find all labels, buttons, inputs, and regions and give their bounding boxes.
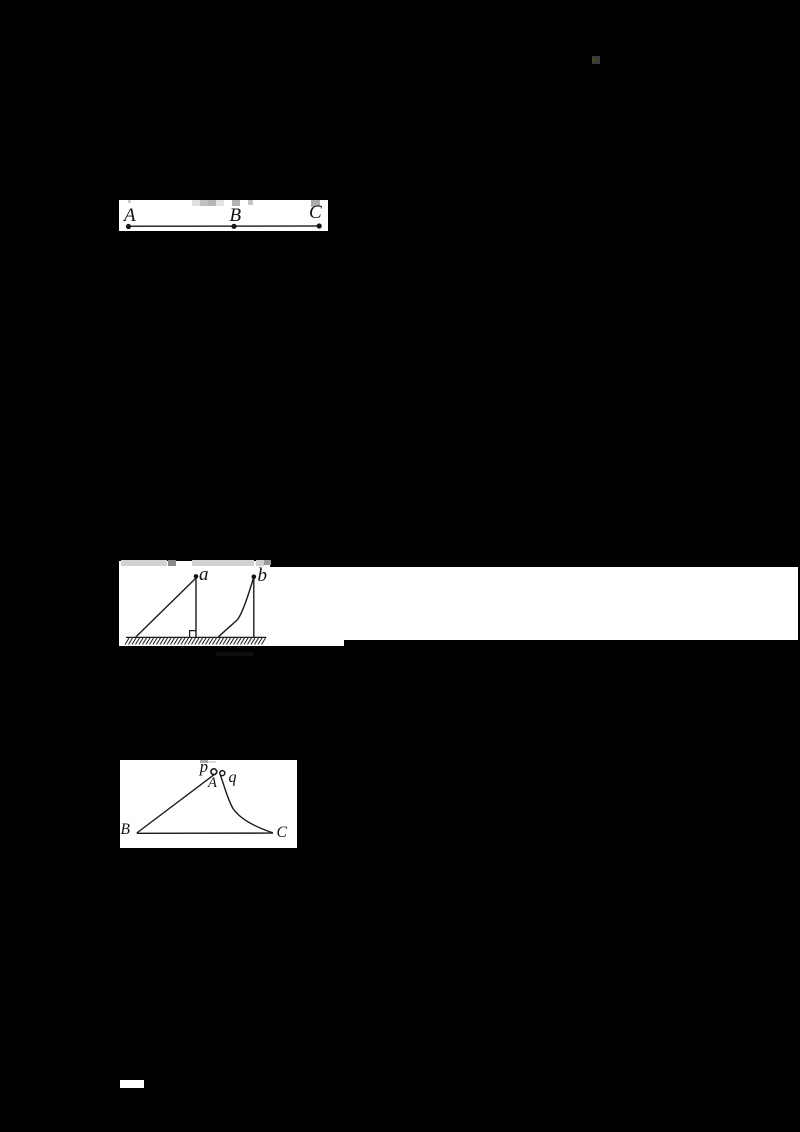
pole b vertical line: [253, 578, 255, 638]
label A (fig1): [124, 206, 136, 225]
ground hatching: [125, 638, 266, 645]
node A dot: [126, 223, 131, 228]
right-angle mark at pole a base: [190, 630, 196, 636]
figure 1 white box: [119, 200, 328, 232]
faint remnant below figure 2 box: [216, 652, 253, 656]
node b dot: [252, 574, 257, 579]
figure 2 white right band: [344, 567, 798, 640]
figure 2 white middle strip: [270, 567, 344, 646]
label a (fig2): [199, 565, 209, 584]
small circle q: [219, 770, 224, 775]
figure 3 drawing: [120, 760, 297, 848]
olive mark inside gray square: [592, 58, 595, 63]
label p (fig3): [200, 759, 208, 776]
node C dot: [317, 223, 322, 228]
figure 1 faded text smudge row: [128, 200, 131, 204]
curved rope to pole b: [219, 578, 254, 636]
triangle left side A-B: [136, 772, 216, 833]
ground line: [126, 636, 266, 638]
figure 2 faded text smudge row: [121, 560, 168, 566]
small circle p: [210, 768, 216, 774]
label C (fig1): [309, 203, 322, 222]
label B (fig3): [121, 822, 130, 838]
small dark gray square top right: [592, 56, 600, 64]
label A (fig3): [208, 776, 217, 791]
node B dot: [232, 223, 237, 228]
label C (fig3): [277, 825, 287, 841]
triangle base B-C: [136, 832, 272, 834]
figure 2 drawing: [119, 561, 270, 647]
ladder line to pole a: [136, 578, 196, 637]
pole a vertical line: [195, 578, 197, 637]
figure 2 white box (left part with drawing): [119, 561, 270, 646]
wire segment A-C: [129, 225, 320, 227]
node a dot: [194, 574, 199, 579]
small white rectangle bottom left: [120, 1080, 144, 1088]
label q (fig3): [229, 770, 237, 786]
label b (fig2): [258, 566, 268, 585]
figure 1 line ABC with endpoint dots: [119, 200, 328, 232]
figure 3 white box: [120, 760, 297, 848]
curved side A-C: [220, 775, 273, 833]
label B (fig1): [230, 206, 242, 225]
figure 3 gray remnant above p: [200, 760, 208, 763]
